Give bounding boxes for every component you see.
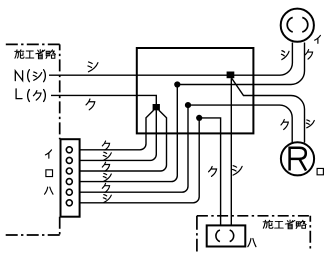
wire return from switch (wire 6) to junction dot C	[72, 118, 199, 203]
wire ク: dot C to ceiling rose ハ	[199, 118, 220, 225]
label ハ (switch)	[45, 187, 53, 194]
label シ switch wire 2	[103, 152, 111, 160]
switch ロ terminal 1	[66, 168, 72, 174]
label シ switch wire 6	[103, 195, 111, 203]
wire return from switch (wire 4) to junction dot A	[72, 85, 177, 182]
wire ク: L terminal to connection sleeve	[51, 95, 156, 104]
label シ (R wire)	[306, 120, 314, 128]
ceiling rose イ (round)	[281, 9, 314, 42]
wire ク riser to switch (wire 3)	[72, 110, 166, 171]
label イ (switch)	[45, 150, 51, 158]
label ク on L wire	[86, 99, 95, 110]
junction dot B	[185, 102, 191, 108]
label ロ (switch)	[46, 170, 53, 177]
switch イ terminal 1	[66, 147, 72, 153]
switch イ terminal 2	[66, 157, 72, 163]
wire ク riser to switch イ (sleeve to switch wire 1)	[72, 110, 153, 150]
label イ (ceiling rose)	[315, 35, 321, 43]
wire ク: dot A to ceiling rose イ	[177, 43, 304, 85]
lamp receptacle R	[281, 142, 314, 175]
junction dot A	[174, 81, 180, 87]
label ク (ceiling rose wire)	[305, 50, 312, 59]
wire ク: dot B to lamp receptacle R	[188, 105, 292, 142]
label ク (R wire)	[281, 120, 288, 130]
switch ハ terminal 1	[66, 189, 72, 195]
connection sleeve ■ (L feed to switches)	[153, 104, 160, 110]
wire return from switch (wire 5) to junction dot B	[72, 105, 188, 192]
wire ク riser to switch (wire 2)	[72, 110, 156, 160]
label シ on N wire	[88, 62, 98, 72]
junction box	[137, 48, 254, 133]
switch box	[61, 139, 80, 217]
label 施工省略 (top-left)	[15, 50, 56, 59]
label シ on ハ wire	[233, 166, 243, 175]
switch ハ terminal 2	[66, 200, 72, 206]
label シ (ceiling rose wire)	[281, 51, 289, 60]
wire シ: N terminal to sleeve	[49, 74, 230, 76]
switch ロ terminal 2	[66, 179, 72, 185]
label ハ (bottom lamp)	[248, 239, 256, 247]
junction dot C	[196, 115, 202, 121]
label ロ (lamp receptacle)	[317, 168, 323, 174]
wire シ: sleeve to ceiling rose イ	[230, 43, 292, 76]
wire シ: sleeve down to ceiling rose ハ	[230, 78, 232, 225]
wire シ: sleeve to lamp receptacle R	[232, 78, 305, 143]
label ク switch wire 5	[102, 183, 109, 192]
label ク on ハ wire	[209, 166, 217, 176]
label ク switch wire 3	[102, 162, 109, 171]
ceiling rose ハ (square type)	[207, 225, 246, 246]
label ク switch wire 1	[102, 141, 109, 150]
label シ switch wire 4	[103, 173, 111, 181]
boundary dash-dot: bottom-right 施工省略 region	[197, 216, 310, 252]
terminal label L（ク）	[16, 89, 45, 102]
label 施工省略 (bottom-right)	[263, 220, 306, 229]
boundary dash-dot: left 施工省略 region	[6, 44, 60, 235]
connection sleeve ■ (neutral シ junction)	[227, 72, 235, 79]
terminal label N（シ）	[15, 70, 45, 82]
